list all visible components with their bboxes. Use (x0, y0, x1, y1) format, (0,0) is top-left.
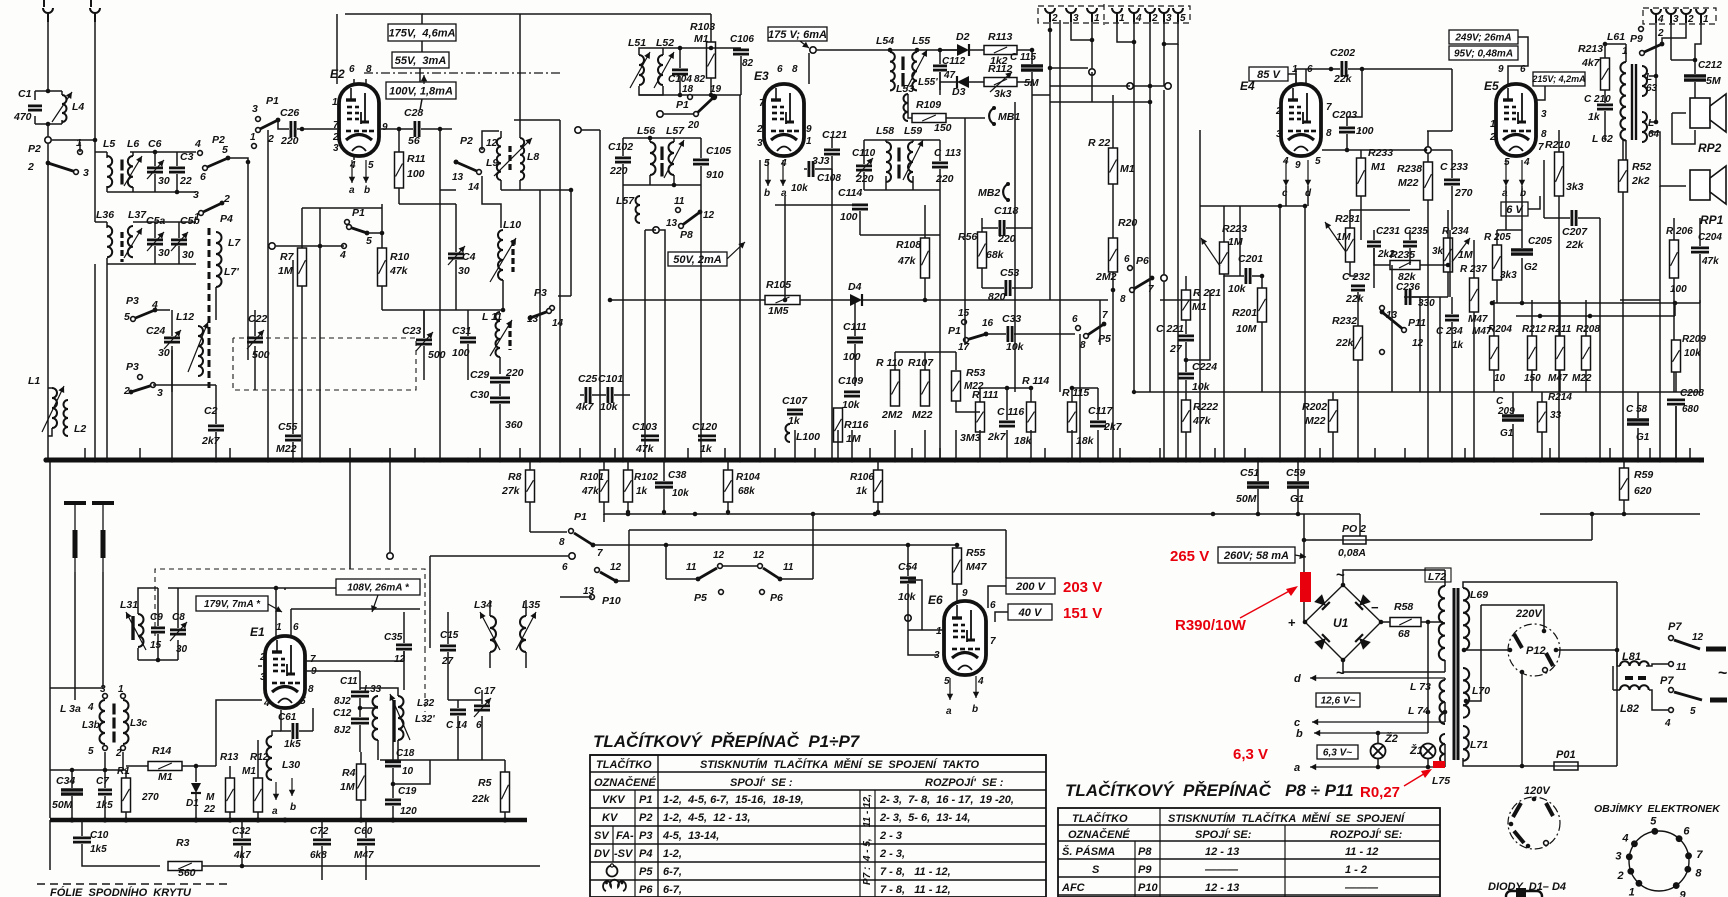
svg-text:14: 14 (468, 182, 480, 193)
wire (1541, 432, 1543, 460)
svg-text:1k: 1k (636, 486, 648, 497)
svg-text:22k: 22k (1565, 239, 1585, 251)
inductor L56 (650, 142, 656, 175)
contact 12a (595, 568, 600, 573)
capacitor C5b trimmer (171, 238, 187, 241)
svg-text:100: 100 (843, 351, 861, 363)
svg-text:150: 150 (934, 122, 952, 134)
wire (1444, 702, 1446, 722)
dashed coupling box (233, 338, 416, 390)
resistor R214 (1538, 402, 1547, 432)
wire (1050, 85, 1130, 87)
capacitor C23 (416, 338, 432, 341)
wire (1622, 140, 1624, 160)
wire (1360, 150, 1362, 158)
junction (1211, 512, 1216, 517)
svg-text:C10: C10 (90, 830, 109, 841)
wire (1599, 392, 1601, 460)
svg-text:47k: 47k (389, 265, 409, 277)
junction (1520, 764, 1525, 769)
terminal (657, 111, 663, 117)
svg-text:5: 5 (124, 311, 130, 323)
wire (1674, 303, 1676, 316)
box 126V (1316, 693, 1360, 707)
terminal (269, 243, 275, 249)
wire (639, 94, 741, 96)
svg-text:3: 3 (757, 138, 763, 149)
svg-text:M22: M22 (912, 409, 933, 421)
wire (423, 346, 425, 380)
junction (438, 127, 443, 132)
svg-text:P10: P10 (1138, 882, 1158, 894)
connector pin 5 (1173, 8, 1183, 13)
svg-text:C9: C9 (150, 612, 163, 623)
svg-text:22: 22 (179, 175, 192, 187)
svg-text:68: 68 (1398, 628, 1410, 640)
svg-text:3J3: 3J3 (812, 155, 830, 167)
capacitor C107 (787, 408, 803, 411)
wire (1699, 300, 1701, 303)
svg-text:9: 9 (806, 124, 812, 135)
wire (1659, 186, 1661, 300)
svg-text:220: 220 (609, 165, 628, 177)
wire (723, 565, 757, 567)
wire (153, 384, 216, 386)
wire (403, 612, 405, 643)
resistor R59 (1620, 468, 1629, 500)
wire (529, 502, 531, 532)
svg-text:R223: R223 (1222, 223, 1247, 235)
wire (195, 794, 197, 818)
svg-text:7: 7 (990, 636, 996, 647)
wire (610, 299, 765, 301)
wire (1463, 582, 1617, 588)
tube E5 (1496, 84, 1536, 156)
svg-text:OZNAČENÉ: OZNAČENÉ (1068, 828, 1130, 841)
core (897, 148, 900, 162)
wire (1409, 248, 1411, 265)
cathode arrow c (1285, 160, 1287, 186)
wire (956, 584, 958, 602)
capacitor C120 (698, 434, 716, 437)
svg-text:P4: P4 (639, 848, 652, 860)
capacitor C121 (824, 148, 840, 151)
svg-text:1: 1 (1119, 13, 1125, 24)
resistor R237 (1470, 278, 1479, 312)
wire (908, 94, 912, 118)
speaker RP2 (1690, 98, 1710, 128)
junction (672, 183, 677, 188)
svg-text:C72: C72 (310, 826, 329, 837)
capacitor C116 (999, 420, 1015, 423)
wire (982, 227, 998, 229)
inductor L62 primary (1620, 62, 1626, 140)
svg-text:L55': L55' (918, 77, 938, 88)
svg-text:18k: 18k (1014, 435, 1033, 447)
svg-text:M47: M47 (1548, 373, 1568, 384)
svg-text:2: 2 (756, 124, 763, 135)
wire (353, 79, 355, 84)
svg-text:620: 620 (1634, 485, 1652, 497)
svg-text:L2: L2 (74, 423, 86, 435)
wire (71, 796, 73, 818)
junction (608, 298, 613, 303)
wire (1133, 86, 1135, 392)
wire (403, 651, 405, 690)
wire (1609, 448, 1611, 460)
wire (1049, 22, 1051, 68)
svg-text:P1: P1 (574, 511, 587, 523)
connector pin 3 (1159, 8, 1169, 13)
jack MB2 (1003, 184, 1008, 200)
wire (1071, 388, 1073, 402)
svg-text:C25: C25 (578, 373, 597, 385)
core dashed L11 (508, 322, 511, 350)
contact 6 (1128, 266, 1133, 271)
svg-text:11: 11 (674, 196, 685, 207)
wire (1373, 230, 1375, 240)
wire (1604, 90, 1606, 103)
wire (215, 287, 217, 320)
wire (74, 572, 76, 700)
svg-text:360: 360 (505, 419, 523, 431)
svg-text:C38: C38 (668, 470, 687, 481)
contact 18 (688, 95, 693, 100)
contact (1669, 708, 1674, 713)
wire (420, 99, 422, 110)
switch P8 (681, 212, 700, 226)
core dashed L9 (508, 146, 511, 172)
wire (107, 263, 196, 265)
svg-text:TLAČÍTKOVÝ PŘEPÍNAČ P8 ÷ P1: TLAČÍTKOVÝ PŘEPÍNAČ P8 ÷ P11 (1065, 781, 1354, 800)
wire (1649, 448, 1651, 460)
svg-text:C35: C35 (384, 632, 403, 643)
speaker RP1 (1690, 170, 1710, 200)
svg-text:1k5: 1k5 (90, 844, 107, 855)
wire (1117, 22, 1134, 42)
wire (663, 489, 665, 515)
wire (979, 388, 981, 402)
svg-text:12: 12 (1692, 632, 1704, 643)
junction (1341, 658, 1346, 663)
svg-text:15: 15 (958, 308, 970, 319)
box arrow (1295, 555, 1306, 557)
svg-text:9: 9 (1498, 64, 1504, 75)
svg-text:12: 12 (713, 550, 725, 561)
svg-text:40 V: 40 V (1018, 607, 1043, 619)
svg-text:8J2: 8J2 (334, 725, 351, 736)
resistor R105 (765, 296, 800, 305)
wire (1297, 489, 1299, 514)
wire (155, 309, 170, 311)
svg-text:C29: C29 (470, 369, 489, 381)
wire (1159, 448, 1161, 460)
svg-text:1-2, 4-5, 12 - 13,: 1-2, 4-5, 12 - 13, (663, 812, 750, 824)
wire (1031, 72, 1033, 95)
svg-text:C 17: C 17 (474, 686, 496, 697)
svg-text:L55: L55 (912, 35, 930, 47)
lamp Z1 (1421, 744, 1436, 759)
svg-text:120: 120 (400, 806, 417, 817)
wire (447, 612, 449, 644)
wire (229, 766, 231, 778)
svg-text:1k: 1k (788, 415, 801, 427)
wire (1303, 514, 1305, 572)
cathode arrow a (782, 160, 784, 186)
wire (1444, 678, 1446, 680)
svg-text:100: 100 (1670, 284, 1687, 295)
junction (873, 512, 878, 517)
wire (580, 13, 711, 15)
wire (139, 448, 141, 460)
wire (1699, 300, 1701, 392)
svg-text:1: 1 (250, 132, 256, 143)
svg-text:2: 2 (1489, 132, 1496, 143)
junction (397, 127, 402, 132)
resistor R223 (1220, 242, 1229, 274)
connector pin 1 (1112, 8, 1122, 13)
svg-text:R107: R107 (908, 357, 934, 369)
svg-text:P8: P8 (1138, 846, 1152, 858)
socket pin 7 (1685, 852, 1692, 859)
junction (1162, 42, 1167, 47)
capacitor C29 (490, 376, 510, 379)
capacitor C11 (351, 691, 369, 694)
svg-text:R102: R102 (634, 472, 658, 483)
wire (860, 234, 940, 236)
wire (519, 448, 521, 460)
svg-text:L: L (1648, 118, 1654, 129)
wire (1071, 430, 1073, 460)
junction (1622, 512, 1627, 517)
wire (345, 14, 422, 24)
wire (106, 258, 108, 264)
svg-text:b: b (764, 188, 770, 199)
wire (1304, 206, 1306, 392)
svg-text:L57: L57 (666, 125, 685, 137)
wire (1559, 370, 1561, 392)
wire (622, 138, 624, 156)
svg-text:L 62: L 62 (1592, 133, 1613, 145)
terminal (1127, 83, 1133, 89)
svg-text:3: 3 (157, 387, 163, 399)
switch P4 (201, 203, 222, 213)
svg-text:C114: C114 (838, 187, 862, 199)
svg-text:4: 4 (1657, 14, 1664, 25)
switch P7a (1674, 640, 1700, 649)
wire (980, 387, 1031, 389)
svg-text:7 - 8, 11 - 12,: 7 - 8, 11 - 12, (880, 884, 951, 896)
svg-text:OBJÍMKY ELEKTRONEK: OBJÍMKY ELEKTRONEK (1594, 802, 1721, 815)
svg-text:L: L (1646, 72, 1652, 83)
wire (1164, 22, 1178, 44)
wire (1497, 229, 1522, 231)
wire (122, 752, 124, 770)
connector strip right (1643, 8, 1716, 24)
socket pin 3 (1626, 853, 1633, 860)
contact (1380, 350, 1385, 355)
svg-text:7: 7 (1102, 310, 1108, 321)
capacitor C19 (385, 799, 401, 802)
wire (290, 609, 292, 637)
capacitor C210 (1597, 104, 1613, 107)
junction (923, 298, 928, 303)
wire (1374, 448, 1376, 460)
junction (853, 298, 858, 303)
svg-text:1M: 1M (278, 265, 293, 277)
wire (95, 221, 107, 223)
wire (1694, 82, 1696, 100)
wire (1112, 272, 1114, 460)
svg-text:7: 7 (759, 98, 765, 109)
arrow b (1314, 732, 1428, 734)
junction (709, 46, 714, 51)
svg-text:3: 3 (333, 143, 339, 154)
svg-text:1M: 1M (1458, 249, 1473, 261)
wire (639, 48, 663, 55)
wire (1439, 297, 1441, 392)
wire (1404, 448, 1406, 460)
wire (157, 634, 159, 660)
svg-text:5M: 5M (1706, 75, 1721, 87)
svg-text:30: 30 (158, 247, 170, 259)
inductor L4 (62, 95, 67, 122)
inductor L57p (636, 196, 641, 223)
svg-text:R11: R11 (407, 153, 426, 165)
svg-text:M47: M47 (354, 850, 374, 861)
wire (126, 765, 148, 767)
wire (380, 759, 505, 761)
svg-text:TLAČÍTKO: TLAČÍTKO (596, 758, 652, 771)
svg-text:R 115: R 115 (1062, 387, 1089, 399)
inductor L32 (398, 696, 404, 740)
junction (255, 817, 260, 822)
wire (1381, 621, 1390, 623)
wire (1464, 448, 1466, 460)
svg-text:12: 12 (1412, 338, 1424, 349)
resistor R112 (984, 78, 1017, 87)
dashed foil line (37, 883, 232, 885)
wire (1307, 186, 1309, 206)
wire (84, 448, 86, 460)
wire (1112, 184, 1114, 238)
wire (49, 460, 51, 818)
wire (359, 698, 361, 717)
wire (138, 588, 158, 614)
svg-text:6,3 V~: 6,3 V~ (1323, 748, 1352, 759)
junction (175, 190, 180, 195)
svg-text:R0,27: R0,27 (1360, 784, 1400, 801)
wire (1163, 90, 1165, 274)
resistor R238 (1424, 162, 1433, 200)
svg-text:1k: 1k (856, 486, 868, 497)
svg-text:R202: R202 (1302, 401, 1327, 413)
svg-text:113: 113 (945, 148, 961, 159)
svg-text:1: 1 (1094, 13, 1100, 24)
wire (1623, 500, 1625, 514)
svg-text:C55: C55 (278, 421, 297, 433)
junction (1048, 28, 1053, 33)
svg-text:3M3: 3M3 (960, 432, 981, 444)
terminal (1165, 83, 1171, 89)
svg-text:2- 3, 7- 8, 16 - 17, 19 -20: 2- 3, 7- 8, 16 - 17, 19 -20, (879, 794, 1014, 806)
svg-text:4k7: 4k7 (1581, 57, 1601, 69)
wire (1451, 186, 1453, 230)
wire (95, 151, 107, 153)
wire (301, 208, 303, 248)
svg-text:100: 100 (407, 168, 425, 180)
wire (52, 139, 95, 141)
wire (995, 612, 1008, 622)
svg-text:R56: R56 (958, 231, 977, 243)
wire (278, 120, 289, 129)
svg-text:M1: M1 (1120, 163, 1135, 175)
svg-text:12: 12 (610, 562, 622, 573)
wire (1163, 282, 1165, 460)
wire (1199, 130, 1201, 460)
switch P12 slot 2 (1546, 653, 1553, 666)
svg-text:DV: DV (594, 848, 611, 860)
wire (365, 79, 367, 84)
junction (102, 817, 107, 822)
wire (1605, 43, 1626, 45)
svg-text:C204: C204 (1698, 232, 1722, 243)
wire (382, 309, 503, 311)
wire (1671, 59, 1695, 61)
svg-text:10k: 10k (1228, 283, 1247, 295)
wire (1373, 248, 1375, 288)
inductor L1 (52, 388, 57, 428)
wire (429, 612, 431, 648)
wire (499, 384, 501, 396)
wire (1261, 276, 1263, 288)
svg-text:7: 7 (1148, 284, 1154, 295)
svg-text:R58: R58 (1394, 601, 1413, 613)
capacitor C234 (1445, 314, 1459, 317)
svg-text:C33: C33 (1002, 313, 1021, 325)
svg-text:M1: M1 (242, 766, 256, 777)
svg-text:200 V: 200 V (1015, 581, 1046, 593)
wire (1185, 432, 1187, 460)
svg-text:7: 7 (1538, 142, 1544, 153)
wire (1655, 44, 1657, 113)
svg-text:R109: R109 (916, 99, 941, 111)
svg-text:47k: 47k (1192, 415, 1212, 427)
wire (1496, 300, 1498, 303)
wire (1521, 186, 1523, 230)
wire (292, 442, 294, 460)
wire (229, 448, 231, 460)
inductor L70 (1463, 668, 1469, 718)
wire (423, 310, 425, 338)
svg-text:0,08A: 0,08A (1338, 547, 1366, 559)
resistor R8 (526, 470, 535, 502)
wire (603, 460, 605, 470)
capacitor C233 (1444, 178, 1460, 181)
P7b bar (1710, 698, 1727, 703)
wire (1623, 460, 1625, 468)
wire (49, 820, 51, 870)
svg-text:C 116: C 116 (997, 406, 1024, 418)
wire (1699, 218, 1701, 246)
wire (739, 95, 741, 460)
svg-text:L33: L33 (364, 684, 382, 695)
wire (132, 187, 134, 192)
svg-text:1M: 1M (1336, 231, 1351, 243)
svg-text:5: 5 (368, 160, 374, 171)
wire (1050, 101, 1150, 103)
recorder symbol (603, 880, 626, 891)
